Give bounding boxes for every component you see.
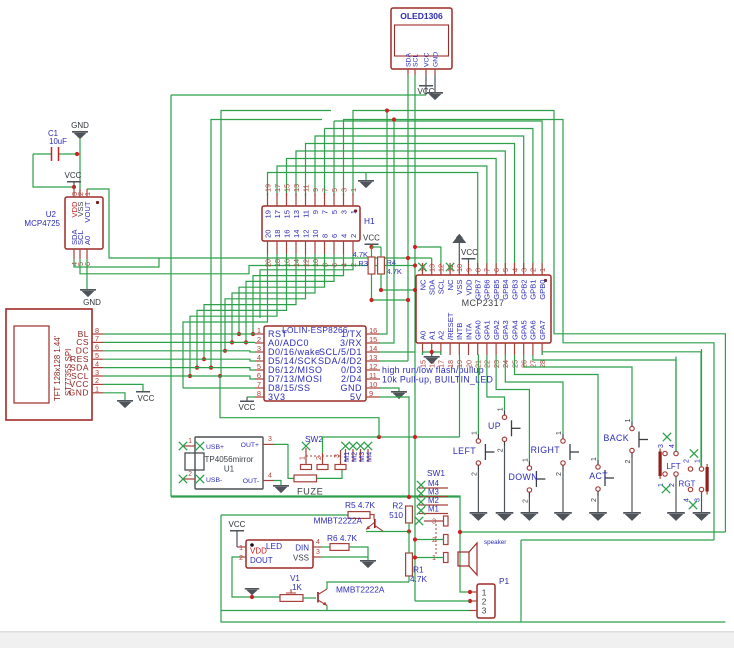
- H1 pin 13: [295, 193, 297, 206]
- svg-text:20: 20: [263, 230, 272, 238]
- svg-text:1: 1: [83, 192, 92, 196]
- junction RX rail: [392, 117, 396, 121]
- svg-text:R2: R2: [392, 501, 403, 511]
- svg-text:R3: R3: [358, 259, 368, 268]
- U2 pin SDA: [73, 249, 75, 259]
- wire FUZE to SW2 contact 3: [317, 470, 343, 479]
- SW1 contact 3: [444, 516, 449, 526]
- wire UP to ground: [504, 446, 506, 512]
- svg-text:LFT: LFT: [666, 462, 680, 471]
- svg-text:10k Pull-up, BUILTIN_LED: 10k Pull-up, BUILTIN_LED: [382, 374, 493, 384]
- svg-text:1: 1: [522, 458, 529, 462]
- svg-text:TP4056mirror: TP4056mirror: [205, 455, 254, 464]
- svg-text:6: 6: [257, 371, 261, 380]
- wire U2 A0 to ground: [86, 259, 88, 289]
- svg-text:4: 4: [268, 473, 272, 480]
- svg-text:4: 4: [510, 268, 519, 272]
- X mark RGT top: [690, 449, 698, 457]
- MCP2317 pin 20 INTA: [468, 343, 470, 355]
- svg-text:GPA2: GPA2: [492, 320, 501, 340]
- svg-text:2: 2: [684, 459, 691, 463]
- wire H1 pin 20 to left bus: [183, 254, 268, 388]
- svg-text:10uF: 10uF: [49, 137, 67, 146]
- svg-text:OLED1306: OLED1306: [400, 11, 443, 21]
- wire OLED GND stub: [434, 75, 436, 92]
- capacitor C1: [33, 153, 52, 155]
- svg-text:12: 12: [301, 230, 310, 238]
- wire Q2 emitter to P1: [221, 606, 327, 611]
- LED pin DIN: [313, 546, 321, 548]
- U2 pin VSS: [79, 189, 81, 197]
- svg-text:4: 4: [669, 444, 676, 448]
- wire speaker rail: [460, 531, 725, 533]
- svg-text:5: 5: [257, 362, 261, 371]
- svg-text:VCC: VCC: [461, 248, 478, 257]
- wire U2 SDA rail to MCP: [74, 258, 432, 267]
- wire ESP 3V3 to VCC: [247, 396, 255, 398]
- wire LEFT to ground: [477, 470, 479, 512]
- ESP8266 pin 10 GND: [366, 387, 380, 389]
- wire OLED SDA down: [407, 75, 409, 361]
- junction left bus: [202, 357, 206, 361]
- OLED pin SDA: [407, 69, 409, 75]
- svg-text:1: 1: [498, 407, 505, 411]
- svg-text:GND: GND: [69, 388, 89, 398]
- wire MCP SCL to rail: [415, 247, 441, 263]
- OLED pin VCC: [425, 69, 427, 75]
- wire MCP GPA6 to button: [533, 355, 676, 451]
- svg-text:DOUT: DOUT: [250, 556, 273, 565]
- H1 pin 14: [295, 241, 297, 254]
- svg-text:OUT+: OUT+: [241, 442, 259, 449]
- wire MCP GPA4 to button: [515, 355, 599, 460]
- ESP8266 pin 14 SCL/5/D1: [366, 351, 380, 353]
- MCP2317 pin 17 A2: [440, 343, 442, 355]
- wire bus H1 pin15 to MCP GPB5: [287, 159, 497, 270]
- wire ACT to ground: [597, 496, 599, 512]
- MCP2317 pin 26 GPA5: [523, 343, 525, 355]
- LED pin DOUT: [239, 556, 246, 558]
- svg-text:3: 3: [482, 606, 487, 616]
- svg-text:M1: M1: [428, 505, 439, 514]
- SW1 pin M4: [419, 487, 448, 489]
- push button ACT leads: [597, 460, 599, 465]
- svg-text:RGT: RGT: [679, 480, 696, 489]
- svg-text:VCC: VCC: [65, 171, 82, 180]
- ground below RIGHT: [554, 512, 572, 514]
- ground right of TFT: [117, 400, 133, 402]
- svg-text:1: 1: [625, 419, 632, 423]
- svg-text:GPB5: GPB5: [492, 280, 501, 300]
- wire top rail bottom module: [171, 496, 460, 498]
- wire R5 to Q1 base: [370, 515, 374, 520]
- svg-text:1: 1: [695, 459, 702, 463]
- svg-text:10: 10: [455, 264, 464, 272]
- svg-text:GPA1: GPA1: [483, 320, 492, 340]
- ESP8266 pin 11 2/D4: [366, 378, 380, 380]
- ESP8266 pin 4 D5/14/SCK: [255, 360, 264, 362]
- svg-text:RIGHT: RIGHT: [531, 445, 561, 455]
- H1 pin 8: [324, 241, 326, 254]
- ESP8266 pin 7 D8/15/SS: [255, 387, 264, 389]
- U2 pin-1 mark: [96, 201, 99, 204]
- wire P1 pin2 left: [415, 600, 469, 602]
- P1 pin 3: [469, 610, 477, 612]
- wire MCP GPA2 to button: [496, 355, 529, 461]
- SW1 pin M2: [419, 504, 448, 506]
- U2 pin A0: [86, 249, 88, 259]
- ground below OLED: [427, 92, 443, 94]
- wire H1 pin 10 to left bus: [232, 254, 315, 342]
- wire H1 pin 18 to left bus: [190, 254, 277, 376]
- svg-text:U2: U2: [46, 210, 57, 219]
- svg-text:2: 2: [625, 460, 632, 464]
- P1 pin 1: [469, 591, 477, 593]
- SW1 pin 3 wire: [424, 520, 444, 522]
- svg-text:MMBT2222A: MMBT2222A: [314, 516, 363, 526]
- X mark LFT bottom: [662, 485, 670, 493]
- svg-text:3: 3: [658, 444, 665, 448]
- H1 pin 2: [352, 241, 354, 254]
- TP4056 USB jack mark: [185, 453, 204, 470]
- junction V1 left: [250, 595, 254, 599]
- svg-text:6: 6: [330, 234, 339, 238]
- wire TFT VCC to symbol: [103, 384, 143, 391]
- svg-text:VCC: VCC: [229, 520, 246, 529]
- svg-text:4.7K: 4.7K: [353, 250, 368, 259]
- svg-text:GPA0: GPA0: [474, 320, 483, 340]
- TFT pin 3 SCL: [92, 375, 103, 377]
- ground tap near H1: [365, 173, 367, 181]
- svg-text:GPB4: GPB4: [501, 279, 510, 299]
- SW1 contact 2: [444, 535, 449, 545]
- svg-text:GPB7: GPB7: [474, 280, 483, 300]
- wire V1 to Q2 base: [303, 597, 316, 599]
- svg-text:3: 3: [339, 210, 348, 214]
- ESP8266 pin 8 3V3: [255, 396, 264, 398]
- junction SDA rail lower: [209, 366, 213, 370]
- svg-text:12: 12: [369, 362, 377, 371]
- svg-text:7: 7: [320, 210, 329, 214]
- svg-text:1: 1: [300, 456, 307, 460]
- H1 pin 12: [305, 241, 307, 254]
- wire OUT- to ground: [274, 481, 281, 486]
- wire BACK to ground: [631, 458, 633, 513]
- wire H1 pin 4 to left bus: [253, 254, 344, 334]
- TP4056 pin OUT-: [263, 480, 274, 482]
- svg-text:7: 7: [483, 268, 492, 272]
- svg-text:1: 1: [538, 268, 547, 272]
- wire H1 pin 14 to left bus: [204, 254, 296, 359]
- svg-text:1: 1: [239, 545, 243, 552]
- ESP8266 pin 6 D7/13/MOSI: [255, 378, 264, 380]
- junction SCL rail lower: [218, 374, 222, 378]
- svg-text:16: 16: [282, 230, 291, 238]
- svg-text:8: 8: [257, 389, 261, 398]
- SW1 dashed link: [435, 524, 437, 554]
- svg-text:17: 17: [273, 184, 282, 192]
- H1 pin 16: [286, 241, 288, 254]
- svg-text:R4: R4: [387, 258, 397, 267]
- svg-text:SDA: SDA: [406, 53, 413, 67]
- wire TFT BL to ESP: [103, 333, 255, 335]
- svg-text:7: 7: [257, 380, 261, 389]
- wire DOUT down: [232, 557, 280, 597]
- svg-text:GPB1: GPB1: [529, 280, 538, 300]
- MCP2317 pin 2 GPB1: [532, 263, 534, 275]
- ground below U2: [80, 289, 96, 291]
- push button LEFT actuator: [484, 444, 486, 460]
- junction speaker rail: [458, 530, 462, 534]
- svg-text:3: 3: [520, 268, 529, 272]
- U2 pin VOUT: [86, 189, 88, 197]
- svg-text:A2: A2: [437, 331, 446, 340]
- svg-text:R5 4.7K: R5 4.7K: [345, 500, 375, 510]
- svg-text:R6 4.7K: R6 4.7K: [327, 533, 357, 543]
- MCP2317 pin 3 GPB2: [523, 263, 525, 275]
- push button DOWN contacts: [527, 466, 531, 470]
- push button DOWN actuator: [535, 471, 537, 487]
- svg-text:5: 5: [330, 210, 339, 214]
- TP4056 pin USB-: [183, 478, 195, 480]
- svg-text:2: 2: [188, 471, 192, 478]
- ground at V1: [245, 588, 259, 589]
- wire MCP GPA0 to LEFT button: [477, 355, 480, 434]
- wire bus H1 pin19 to MCP GPB7: [268, 173, 478, 270]
- svg-text:LEFT: LEFT: [453, 446, 476, 456]
- wire R5 rail: [221, 514, 348, 516]
- svg-text:13: 13: [292, 184, 301, 192]
- MCP2317 pin 16 A1: [431, 343, 433, 355]
- svg-text:GPA4: GPA4: [510, 320, 519, 340]
- svg-text:SDA: SDA: [428, 279, 437, 296]
- svg-text:GPA6: GPA6: [529, 320, 538, 340]
- U2 pin SCL: [79, 249, 81, 259]
- wire bus H1 pin1 to right margin: [353, 111, 725, 533]
- junction TX rail: [385, 108, 389, 112]
- junction left bus: [230, 340, 234, 344]
- X mark NC pin11: [446, 263, 454, 271]
- P1 pin 2: [469, 600, 477, 602]
- wire MCP GPA7 to button: [542, 352, 701, 467]
- wire bus H1 pin5 to MCP GPB0: [334, 121, 542, 269]
- push button UP contacts: [502, 415, 506, 419]
- ground below RGT: [693, 512, 711, 514]
- wire ESP D1 to SCL rail: [380, 351, 415, 353]
- TFT pin 4 SDA: [92, 367, 103, 369]
- svg-text:GPB3: GPB3: [510, 280, 519, 300]
- IC LED WS2812 outline: [246, 540, 313, 568]
- wire TFT SDA to ESP: [103, 368, 255, 370]
- MCP2317 pin 28 GPA7: [541, 343, 543, 355]
- wire RIGHT to ground: [562, 470, 564, 512]
- svg-text:2: 2: [522, 499, 529, 503]
- svg-text:GPB2: GPB2: [520, 280, 529, 300]
- ground below DOWN: [521, 512, 539, 514]
- ground below BACK: [623, 512, 641, 514]
- svg-text:9: 9: [464, 268, 473, 272]
- wire ESP D2 to SDA rail: [380, 360, 408, 362]
- wire bus H1 pin17 to MCP GPB6: [277, 166, 487, 269]
- wire LFT top to bus: [675, 357, 677, 452]
- push button LEFT leads: [477, 434, 479, 439]
- push button UP actuator: [511, 420, 513, 436]
- svg-text:1K: 1K: [292, 583, 302, 592]
- ESP8266 pin 9 5V: [366, 396, 380, 398]
- ESP8266 pin 16 1/TX: [366, 333, 380, 335]
- resistor R4: [378, 257, 385, 274]
- wire OLED VCC stub: [425, 75, 427, 95]
- junction R3 SDA: [406, 298, 410, 302]
- svg-text:INTA: INTA: [464, 322, 473, 340]
- svg-text:LED: LED: [266, 541, 282, 551]
- SW2 contact 1: [301, 465, 312, 470]
- X marks USB-: [179, 475, 187, 483]
- X marks USB+: [179, 442, 187, 450]
- svg-text:BACK: BACK: [603, 433, 629, 443]
- wire SW2 pin2 rail: [323, 437, 460, 453]
- svg-text:3: 3: [339, 188, 348, 192]
- MCP2317 pin 23 GPA2: [495, 343, 497, 355]
- svg-text:6: 6: [492, 268, 501, 272]
- module TP4056 U1 outline: [195, 437, 263, 489]
- wire GND to U2 VSS: [79, 139, 81, 197]
- push button UP leads: [504, 410, 506, 415]
- wire bottom module left border: [221, 515, 725, 622]
- wire U2 SCL rail to MCP: [80, 259, 415, 274]
- svg-text:9: 9: [369, 389, 373, 398]
- resistor R5: [348, 512, 370, 519]
- MCP2317 pin 7 GPB6: [486, 263, 488, 275]
- wire ESP GND to symbol: [380, 388, 399, 391]
- resistor R2: [406, 506, 413, 523]
- LED pin VSS: [313, 556, 321, 558]
- svg-text:15: 15: [282, 210, 291, 218]
- svg-text:1: 1: [95, 385, 99, 394]
- svg-text:1: 1: [591, 457, 598, 461]
- wire H1 pin7 up: [324, 129, 326, 197]
- ESP8266 pin 12 0/D3: [366, 369, 380, 371]
- svg-text:GPB0: GPB0: [538, 280, 547, 300]
- ground below R6: [360, 560, 376, 562]
- wire H1 pin 6 to left bus: [246, 254, 334, 342]
- TFT pin 1 GND: [92, 392, 103, 394]
- H1 pin 20: [267, 241, 269, 254]
- H1 pin 5: [333, 193, 335, 206]
- MCP2317 pin 13 SDA: [431, 263, 433, 275]
- svg-text:16: 16: [369, 326, 377, 335]
- svg-text:VCC: VCC: [363, 234, 380, 243]
- wire bus H1 pin11 to MCP GPB3: [306, 144, 515, 270]
- svg-text:speaker: speaker: [484, 539, 506, 546]
- wire Q1 emitter rail: [366, 531, 409, 533]
- H1 pin 3: [343, 193, 345, 206]
- wire TFT SCL to ESP: [103, 376, 255, 379]
- svg-text:OUT-: OUT-: [243, 478, 259, 485]
- ground at OUT-: [273, 485, 289, 487]
- svg-text:11: 11: [301, 184, 310, 192]
- wire MCP INTB down: [459, 355, 461, 437]
- TFT pin 7 CS: [92, 341, 103, 343]
- svg-text:R1: R1: [413, 565, 424, 575]
- IC LOLIN-ESP8266 outline: [264, 326, 366, 401]
- svg-text:2: 2: [591, 498, 598, 502]
- svg-text:NC: NC: [418, 279, 427, 290]
- wire R6 to Q1 base node: [349, 547, 368, 557]
- MCP2317 pin 24 GPA3: [504, 343, 506, 355]
- svg-text:3: 3: [695, 498, 702, 502]
- svg-text:GND: GND: [71, 121, 89, 130]
- wire MCP GPA5 to button: [524, 355, 632, 422]
- VCC symbol right of TFT: [136, 391, 150, 393]
- svg-text:LOLIN-ESP8266: LOLIN-ESP8266: [282, 325, 348, 335]
- junction left bus: [195, 366, 199, 370]
- MCP2317 pin 8 GPB7: [477, 263, 479, 275]
- wire H1 pin5 up: [333, 121, 335, 196]
- svg-text:2: 2: [239, 555, 243, 562]
- H1 pin 4: [343, 241, 345, 254]
- wire bus H1 pin3 to right margin: [344, 120, 715, 541]
- resistor R3: [368, 257, 375, 274]
- svg-text:2: 2: [257, 335, 261, 344]
- junction P1 pin2: [468, 599, 472, 603]
- svg-text:4: 4: [257, 353, 261, 362]
- svg-text:2: 2: [498, 448, 505, 452]
- H1 pin 10: [314, 241, 316, 254]
- wire MCP GPA1 to button: [487, 355, 505, 410]
- svg-text:ACT: ACT: [589, 471, 608, 481]
- wire P1 pin3 line: [327, 610, 469, 612]
- SW1 pin 1 wire: [415, 557, 444, 559]
- push button ACT actuator: [604, 470, 606, 486]
- svg-text:15: 15: [282, 184, 291, 192]
- svg-text:1: 1: [349, 210, 358, 214]
- ESP8266 pin 5 D6/12/MISO: [255, 369, 264, 371]
- SW1 pin 2 wire: [415, 539, 444, 541]
- svg-text:USB-: USB-: [206, 477, 222, 484]
- push button BACK actuator: [638, 432, 640, 448]
- wire R2 bottom: [408, 523, 410, 532]
- wire TFT RES to ESP: [103, 359, 255, 361]
- svg-text:14: 14: [369, 344, 377, 353]
- svg-text:A1: A1: [428, 331, 437, 340]
- svg-text:9: 9: [311, 210, 320, 214]
- VCC symbol below ESP: [240, 401, 254, 403]
- svg-text:13: 13: [292, 210, 301, 218]
- connector P1 outline: [477, 584, 495, 618]
- svg-text:VCC: VCC: [424, 53, 431, 67]
- junction R2 top: [407, 495, 411, 499]
- svg-text:H1: H1: [364, 216, 375, 226]
- wire VSS to ground: [321, 557, 368, 560]
- svg-text:2: 2: [556, 472, 563, 476]
- svg-text:GPA3: GPA3: [501, 320, 510, 340]
- svg-text:3: 3: [268, 436, 272, 443]
- svg-text:510: 510: [389, 510, 403, 520]
- H1 pin 11: [305, 193, 307, 206]
- H1 pin 17: [276, 193, 278, 206]
- module TFT ST7735 outline: [6, 309, 92, 420]
- wire VOUT down and right: [87, 189, 159, 258]
- svg-text:5: 5: [330, 188, 339, 192]
- wire SCL rail upper segment: [221, 111, 331, 377]
- MCP2317 pin 1 GPB0: [541, 263, 543, 275]
- wire H1 pin 2 to left bus: [260, 254, 353, 318]
- ground right of ESP: [391, 391, 407, 393]
- svg-text:9: 9: [311, 188, 320, 192]
- H1 pin 7: [324, 193, 326, 206]
- svg-text:19: 19: [263, 210, 272, 218]
